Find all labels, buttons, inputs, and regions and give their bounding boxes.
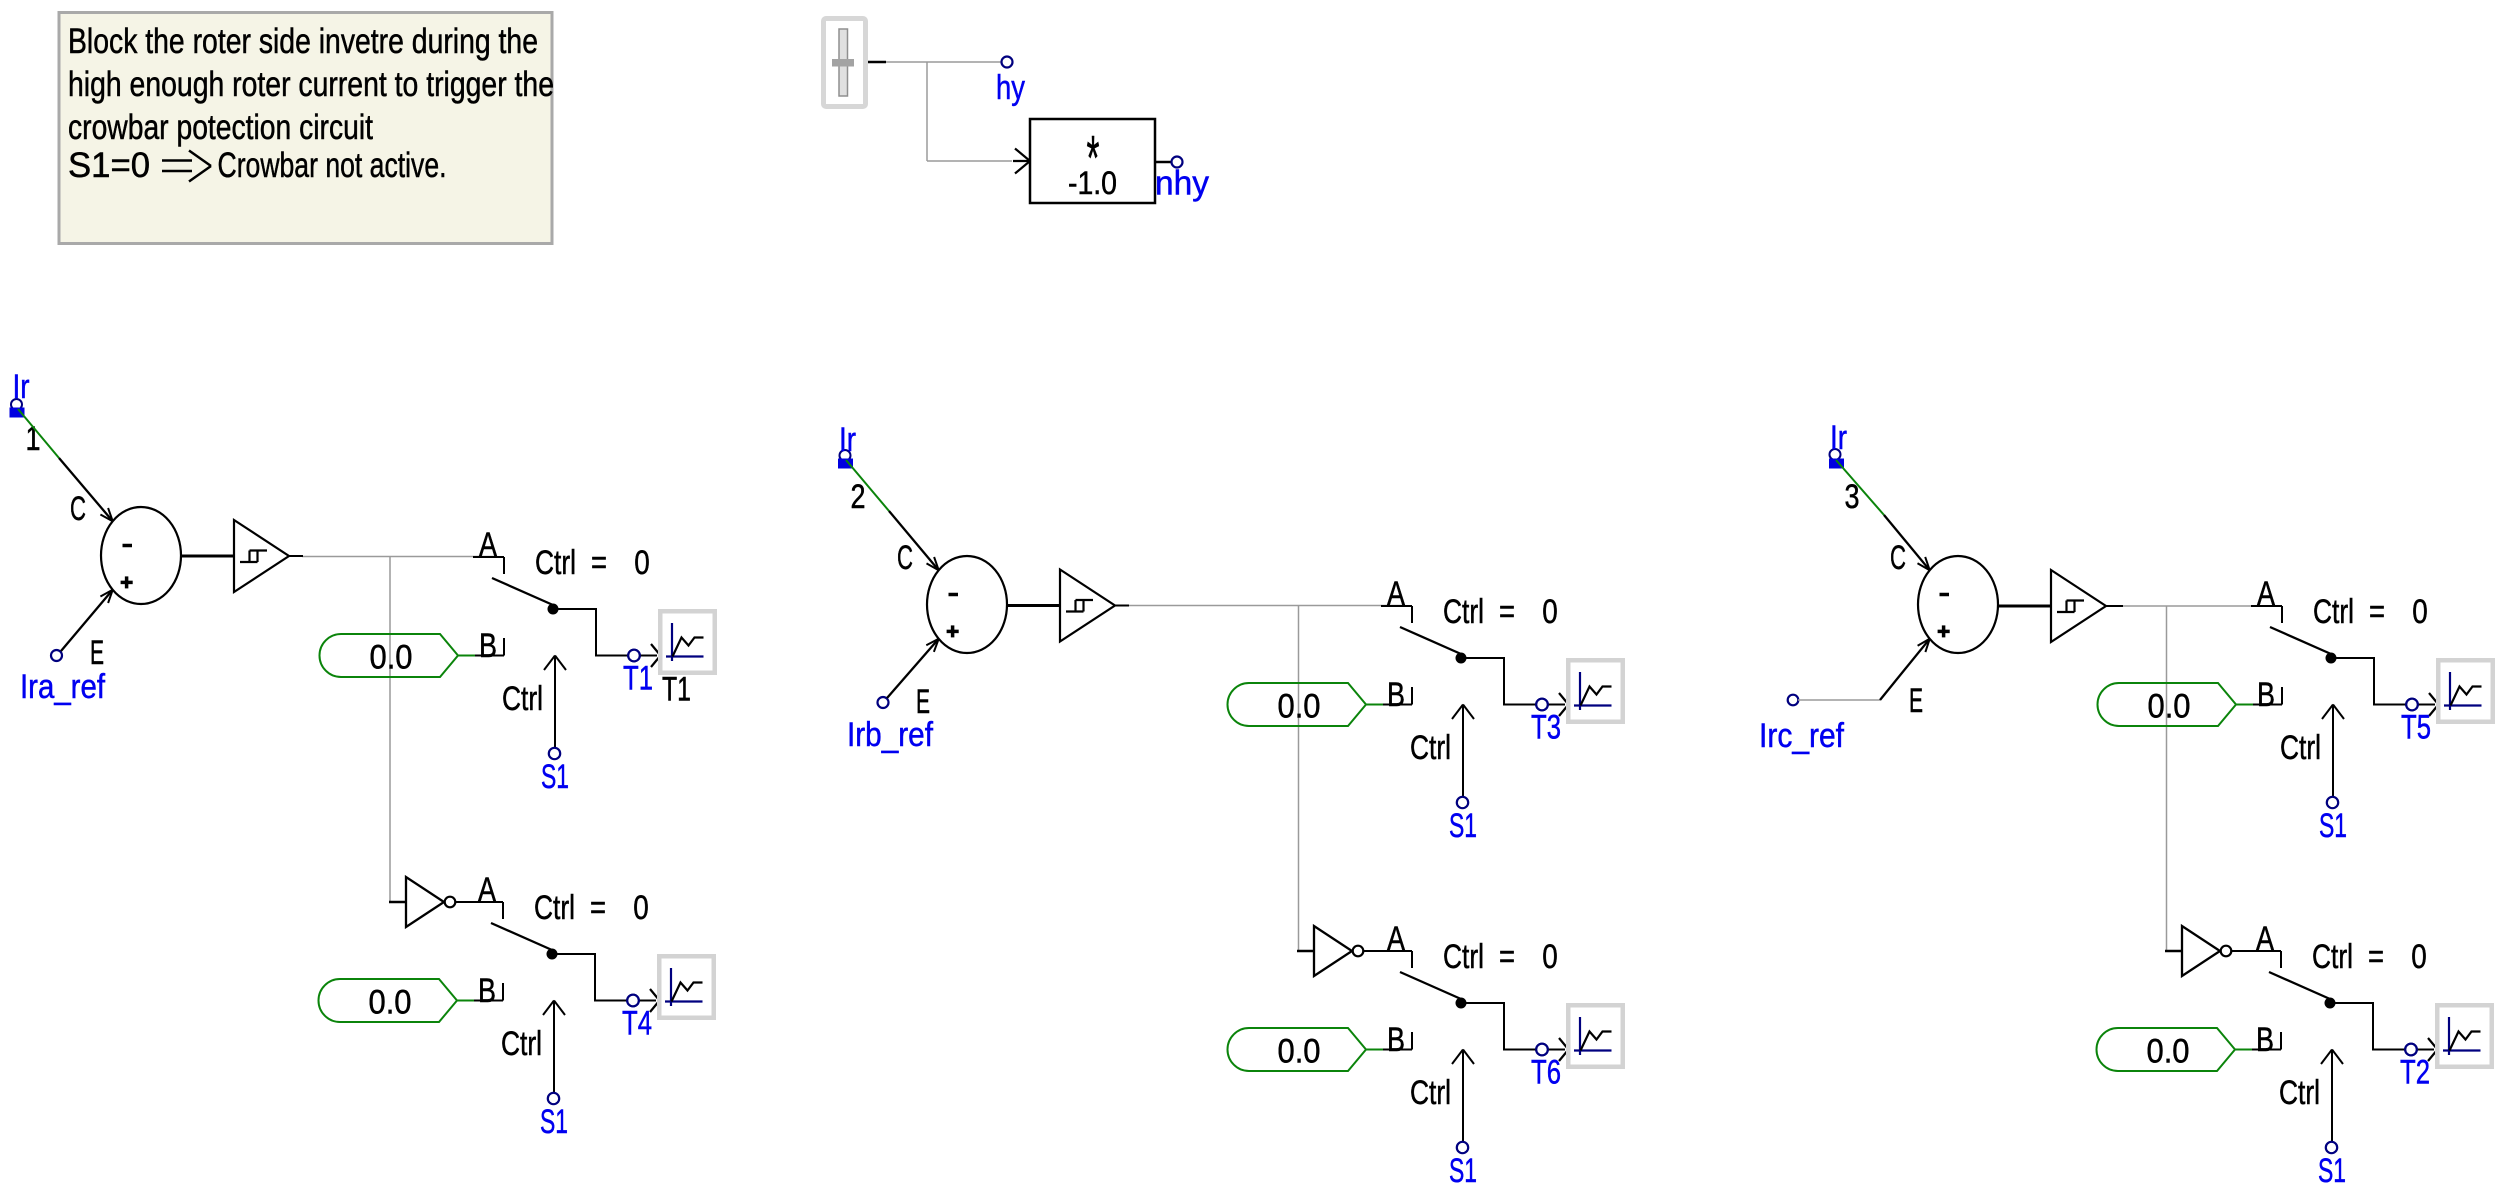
switch S2b A input terminal bbox=[1381, 920, 1412, 968]
switch S2a blade bbox=[1400, 627, 1467, 664]
node S3a output bbox=[2406, 699, 2418, 711]
svg-text:C: C bbox=[70, 490, 86, 528]
svg-text:T1: T1 bbox=[623, 660, 653, 698]
svg-text:A: A bbox=[1387, 575, 1405, 613]
svg-text:crowbar potection circuit: crowbar potection circuit bbox=[68, 108, 373, 147]
svg-text:B: B bbox=[478, 972, 496, 1010]
wire constant to S2b B bbox=[1366, 1049, 1383, 1051]
node T5 bbox=[2401, 699, 2431, 747]
svg-text:0: 0 bbox=[633, 889, 649, 927]
summation block 3 bbox=[1918, 556, 1998, 653]
svg-text:Irb_ref: Irb_ref bbox=[847, 716, 933, 754]
svg-text:S1: S1 bbox=[540, 1103, 568, 1141]
wire constant to S1b B bbox=[457, 1000, 474, 1002]
constant 0.0 for S3b bbox=[2097, 1028, 2236, 1071]
wire S2a output to scope bbox=[1461, 658, 1569, 716]
switch S2b B input terminal bbox=[1383, 1021, 1412, 1059]
comparator 3 output stub bbox=[2106, 605, 2123, 607]
wire branch down to NOT gate 3 bbox=[2166, 606, 2168, 951]
node S1 at S1b bbox=[540, 1093, 568, 1141]
svg-text:Ira_ref: Ira_ref bbox=[20, 668, 105, 706]
wire summation 1 to comparator 1 bbox=[181, 555, 234, 558]
switch S1b A input terminal bbox=[472, 871, 503, 919]
svg-text:T1: T1 bbox=[662, 671, 691, 709]
switch S2a A input terminal bbox=[1381, 575, 1412, 623]
svg-text:=: = bbox=[1499, 593, 1515, 631]
wire S2b output to scope bbox=[1461, 1003, 1569, 1061]
svg-text:Block the roter side invetre d: Block the roter side invetre during the bbox=[68, 22, 538, 61]
node S1 at S3b bbox=[2318, 1142, 2346, 1190]
svg-text:=: = bbox=[1499, 938, 1515, 976]
svg-text:nhy: nhy bbox=[1155, 165, 1209, 203]
node nhy bbox=[1155, 157, 1209, 203]
svg-text:B: B bbox=[2257, 676, 2275, 714]
svg-text:E: E bbox=[90, 634, 104, 672]
svg-text:T2: T2 bbox=[2400, 1054, 2430, 1092]
svg-text:0.0: 0.0 bbox=[369, 984, 412, 1022]
constant 0.0 for S1a bbox=[320, 634, 459, 677]
multiplier block * -1.0 bbox=[1013, 119, 1171, 203]
switch S3b A input terminal bbox=[2250, 920, 2281, 968]
wire constant to S3a B bbox=[2236, 704, 2253, 706]
svg-text:0.0: 0.0 bbox=[370, 639, 413, 677]
node hy bbox=[996, 57, 1025, 108]
constant 0.0 for S2a bbox=[1228, 683, 1367, 726]
svg-text:Ctrl: Ctrl bbox=[1443, 938, 1484, 976]
svg-text:Ir: Ir bbox=[1830, 419, 1847, 457]
svg-text:Ctrl: Ctrl bbox=[1410, 1074, 1451, 1112]
wire branch down to NOT gate 1 bbox=[390, 557, 392, 903]
svg-text:0: 0 bbox=[2412, 593, 2428, 631]
summation 2 input E arrow bbox=[887, 639, 939, 721]
switch S2a B input terminal bbox=[1383, 676, 1412, 714]
constant 0.0 for S3a bbox=[2098, 683, 2237, 726]
switch S2b Ctrl = 0 label bbox=[1443, 938, 1558, 976]
node S2b output bbox=[1536, 1044, 1548, 1056]
hysteresis comparator 3 bbox=[2051, 570, 2106, 642]
node T3 bbox=[1531, 699, 1561, 747]
wire branch down to NOT gate 2 bbox=[1298, 606, 1300, 952]
wire branch down to multiplier bbox=[927, 62, 1012, 161]
svg-text:A: A bbox=[2256, 920, 2274, 958]
switch S3b blade bbox=[2269, 972, 2336, 1009]
scope T4 bbox=[657, 954, 716, 1020]
svg-text:A: A bbox=[479, 526, 497, 564]
constant 0.0 for S2b bbox=[1228, 1028, 1367, 1071]
switch S2b Ctrl input arrow bbox=[1410, 1050, 1474, 1143]
wire NOT gate 3 to switch bbox=[2232, 950, 2282, 952]
node S3b output bbox=[2405, 1044, 2417, 1056]
node T4 bbox=[622, 995, 652, 1043]
scope name label T1 bbox=[662, 671, 691, 709]
node T2 bbox=[2400, 1044, 2430, 1092]
switch S3b B input terminal bbox=[2252, 1021, 2281, 1059]
switch S2b blade bbox=[1400, 972, 1467, 1009]
pin number 1 bbox=[26, 420, 41, 458]
summation 1 input E arrow bbox=[61, 590, 113, 672]
switch S1b blade bbox=[491, 923, 558, 960]
svg-text:0.0: 0.0 bbox=[2147, 1033, 2190, 1071]
scope T3 bbox=[1566, 658, 1625, 724]
wire summation 3 to comparator 3 bbox=[1998, 605, 2051, 608]
switch S3b Ctrl input arrow bbox=[2279, 1050, 2343, 1143]
pin number 3 bbox=[1845, 478, 1860, 516]
node Ira_ref bbox=[20, 650, 105, 706]
svg-text:0.0: 0.0 bbox=[2148, 688, 2191, 726]
svg-text:Ctrl: Ctrl bbox=[2313, 593, 2354, 631]
svg-text:T3: T3 bbox=[1531, 709, 1561, 747]
node T1 bbox=[623, 650, 653, 698]
svg-text:E: E bbox=[1909, 682, 1923, 720]
wire Irc_ref to summation 3 bbox=[1798, 699, 1880, 701]
switch S3a A input terminal bbox=[2251, 575, 2282, 623]
switch S3a Ctrl = 0 label bbox=[2313, 593, 2428, 631]
switch S1a blade bbox=[492, 578, 559, 615]
summation block 1 bbox=[101, 507, 181, 604]
wire constant to S1a B bbox=[458, 655, 475, 657]
node Irc_ref bbox=[1759, 695, 1844, 755]
node S1a output bbox=[628, 650, 640, 662]
switch S3a B input terminal bbox=[2253, 676, 2282, 714]
svg-text:S1: S1 bbox=[2319, 807, 2347, 845]
node S1 at S2a bbox=[1449, 797, 1477, 845]
annotation note box bbox=[59, 13, 554, 244]
svg-text:0: 0 bbox=[1542, 593, 1558, 631]
wire summation 2 to comparator 2 bbox=[1007, 604, 1060, 607]
svg-text:B: B bbox=[1387, 1021, 1405, 1059]
svg-text:C: C bbox=[897, 539, 913, 577]
svg-text:Ir: Ir bbox=[13, 368, 30, 406]
summation 1 input C arrow bbox=[59, 458, 113, 528]
node S1 at S1a bbox=[541, 748, 569, 796]
wire Ir to summation 3 (green) bbox=[1836, 460, 1884, 515]
summation block 2 bbox=[927, 556, 1007, 653]
svg-text:T5: T5 bbox=[2401, 709, 2431, 747]
svg-text:Crowbar not active.: Crowbar not active. bbox=[218, 146, 447, 185]
switch S1a B input terminal bbox=[475, 627, 504, 665]
scope T5 bbox=[2436, 658, 2495, 724]
switch S3b Ctrl = 0 label bbox=[2312, 938, 2427, 976]
svg-text:2: 2 bbox=[851, 478, 866, 516]
svg-text:Ctrl: Ctrl bbox=[502, 680, 543, 718]
NOT gate 3 bbox=[2165, 926, 2231, 976]
svg-text:=: = bbox=[2368, 938, 2384, 976]
svg-text:0: 0 bbox=[2411, 938, 2427, 976]
svg-text:A: A bbox=[2257, 575, 2275, 613]
node T6 bbox=[1531, 1044, 1561, 1092]
svg-text:B: B bbox=[479, 627, 497, 665]
svg-text:Ir: Ir bbox=[839, 421, 856, 459]
node S1 at S2b bbox=[1449, 1142, 1477, 1190]
wire constant to S2a B bbox=[1366, 704, 1383, 706]
svg-text:Ctrl: Ctrl bbox=[2312, 938, 2353, 976]
wire S1b output to scope bbox=[552, 954, 660, 1012]
svg-text:S1: S1 bbox=[1449, 807, 1477, 845]
comparator 2 output stub bbox=[1115, 605, 1129, 607]
constant 0.0 for S1b bbox=[319, 979, 458, 1022]
scope T6 bbox=[1566, 1003, 1625, 1069]
switch S1a Ctrl input arrow bbox=[502, 656, 566, 749]
switch S2a Ctrl = 0 label bbox=[1443, 593, 1558, 631]
svg-text:T4: T4 bbox=[622, 1005, 652, 1043]
switch S1a Ctrl = 0 label bbox=[535, 544, 650, 582]
NOT gate 1 bbox=[389, 877, 455, 927]
hysteresis comparator 1 bbox=[234, 520, 289, 592]
svg-text:=: = bbox=[2369, 593, 2385, 631]
pin number 2 bbox=[851, 478, 866, 516]
svg-text:S1=0: S1=0 bbox=[68, 146, 150, 185]
wire NOT gate 2 to switch bbox=[1364, 950, 1413, 952]
comparator 1 output stub bbox=[289, 555, 303, 557]
summation 3 input C arrow bbox=[1884, 515, 1930, 577]
svg-text:0: 0 bbox=[634, 544, 650, 582]
svg-text:A: A bbox=[478, 871, 496, 909]
svg-text:S1: S1 bbox=[2318, 1152, 2346, 1190]
svg-text:E: E bbox=[916, 683, 930, 721]
wire Ir to summation 2 (green) bbox=[846, 460, 889, 511]
svg-text:=: = bbox=[590, 889, 606, 927]
svg-text:B: B bbox=[2256, 1021, 2274, 1059]
switch S1b Ctrl input arrow bbox=[501, 1001, 565, 1094]
svg-text:Ctrl: Ctrl bbox=[501, 1025, 542, 1063]
svg-text:hy: hy bbox=[996, 69, 1025, 107]
node S1 at S3a bbox=[2319, 797, 2347, 845]
wire NOT gate 1 to switch bbox=[456, 901, 504, 903]
svg-text:0.0: 0.0 bbox=[1278, 1033, 1321, 1071]
svg-text:T6: T6 bbox=[1531, 1054, 1561, 1092]
svg-text:S1: S1 bbox=[541, 758, 569, 796]
node S1b output bbox=[627, 995, 639, 1007]
input port Ir 1 (Ir) bbox=[10, 368, 30, 418]
svg-text:=: = bbox=[591, 544, 607, 582]
svg-text:-1.0: -1.0 bbox=[1068, 165, 1117, 201]
switch S1a A input terminal bbox=[473, 526, 504, 574]
scope T2 bbox=[2435, 1003, 2494, 1069]
node Irb_ref bbox=[847, 697, 933, 754]
wire constant to S3b B bbox=[2235, 1049, 2252, 1051]
svg-text:Ctrl: Ctrl bbox=[2280, 729, 2321, 767]
summation 2 input C arrow bbox=[889, 511, 939, 577]
svg-text:C: C bbox=[1890, 539, 1906, 577]
svg-text:Ctrl: Ctrl bbox=[534, 889, 575, 927]
wire Ir to summation 1 (green) bbox=[18, 409, 59, 458]
wire comparator 1 output bbox=[302, 556, 495, 558]
scope T1 bbox=[658, 609, 717, 675]
svg-text:A: A bbox=[1387, 920, 1405, 958]
wire S3b output to scope bbox=[2330, 1003, 2438, 1061]
svg-text:B: B bbox=[1387, 676, 1405, 714]
svg-text:Ctrl: Ctrl bbox=[1443, 593, 1484, 631]
summation 3 input E arrow bbox=[1880, 639, 1930, 720]
wire comparator 2 output bbox=[1129, 605, 1403, 607]
input port Ir 3 (Ir) bbox=[1829, 419, 1847, 469]
node S2a output bbox=[1536, 699, 1548, 711]
hysteresis comparator 2 bbox=[1060, 570, 1115, 642]
switch S2a Ctrl input arrow bbox=[1410, 705, 1474, 798]
wire comparator 3 output bbox=[2123, 605, 2273, 607]
NOT gate 2 bbox=[1297, 926, 1363, 976]
switch S3a blade bbox=[2270, 627, 2337, 664]
wire slider to node hy bbox=[886, 61, 1002, 63]
svg-text:Ctrl: Ctrl bbox=[2279, 1074, 2320, 1112]
input port Ir 2 (Ir) bbox=[838, 421, 856, 469]
svg-text:high enough roter current to t: high enough roter current to trigger the bbox=[68, 65, 554, 104]
svg-text:0: 0 bbox=[1542, 938, 1558, 976]
switch S1b B input terminal bbox=[474, 972, 503, 1010]
svg-text:Ctrl: Ctrl bbox=[535, 544, 576, 582]
wire S3a output to scope bbox=[2331, 658, 2439, 716]
switch S3a Ctrl input arrow bbox=[2280, 705, 2344, 798]
wire S1a output to scope bbox=[553, 609, 661, 667]
svg-text:Ctrl: Ctrl bbox=[1410, 729, 1451, 767]
slider constant source block bbox=[824, 19, 887, 107]
svg-text:Irc_ref: Irc_ref bbox=[1759, 717, 1844, 755]
switch S1b Ctrl = 0 label bbox=[534, 889, 649, 927]
svg-text:0.0: 0.0 bbox=[1278, 688, 1321, 726]
svg-text:S1: S1 bbox=[1449, 1152, 1477, 1190]
